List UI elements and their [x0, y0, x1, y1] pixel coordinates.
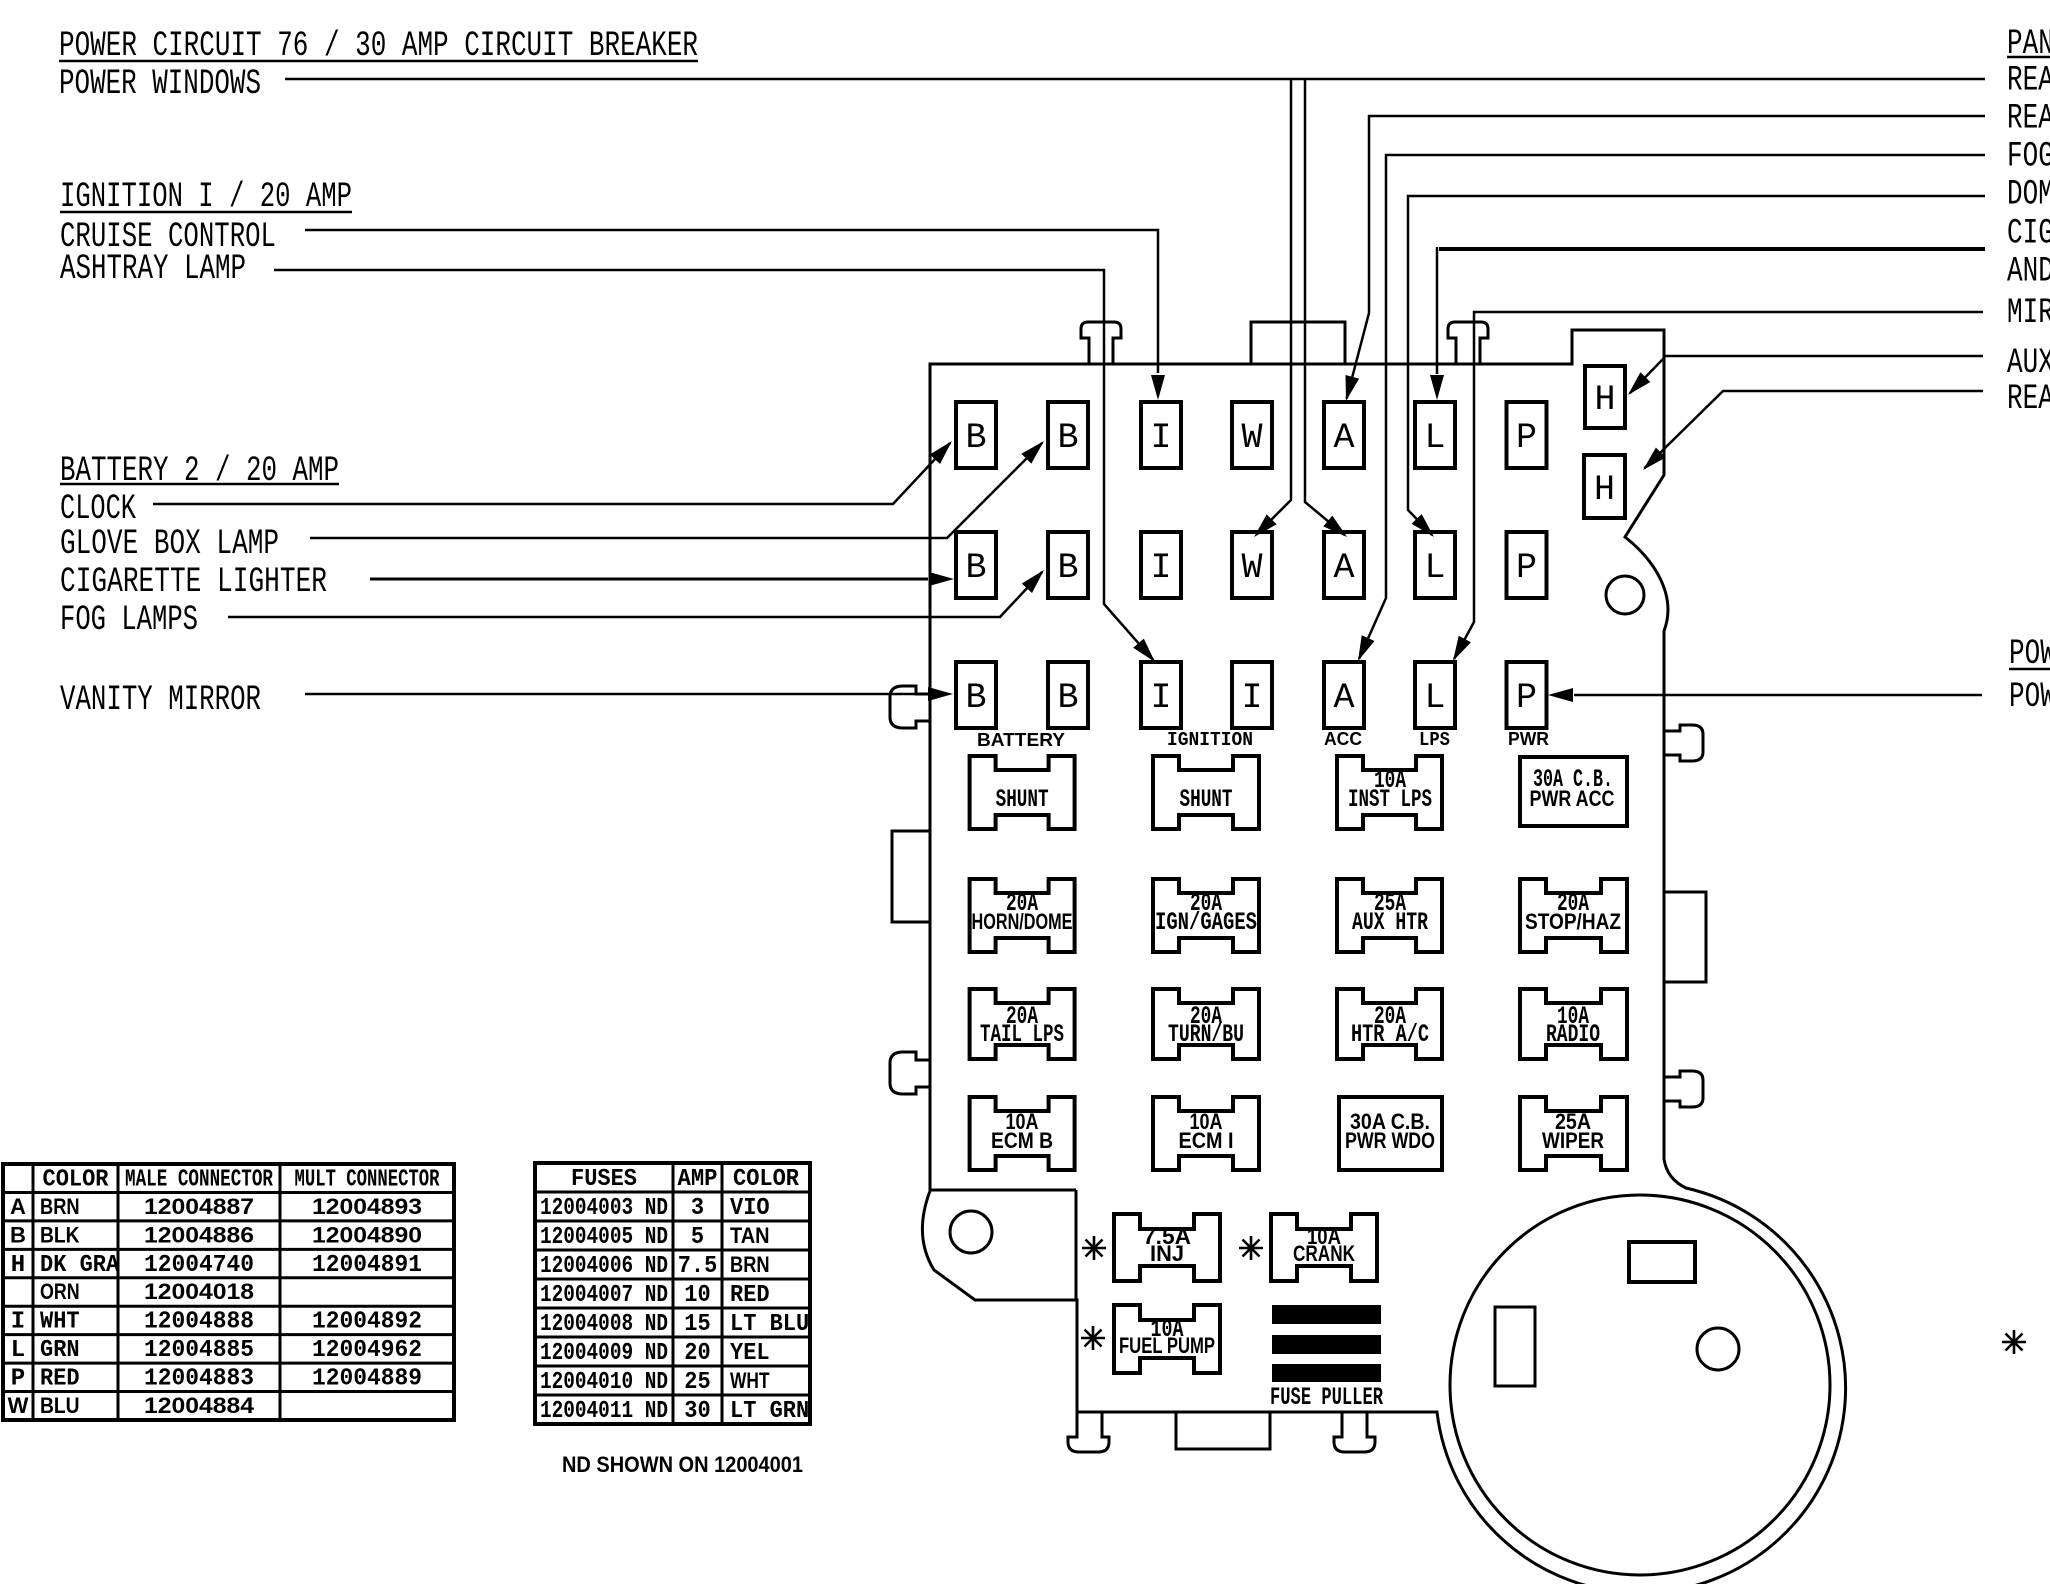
svg-text:ACC: ACC [1324, 729, 1362, 749]
wire REA1 from right to row2 A connector [1305, 80, 1347, 537]
svg-text:DK GRA: DK GRA [40, 1252, 120, 1279]
svg-text:HTR A/C: HTR A/C [1351, 1020, 1429, 1049]
label right MIRROR 7 (clipped) [2007, 293, 2050, 333]
svg-text:25: 25 [684, 1369, 710, 1396]
svg-text:LPS: LPS [1419, 729, 1450, 751]
label CLOCK [60, 489, 136, 529]
bottom mushroom tab 2 [1334, 1412, 1375, 1452]
svg-text:B: B [1057, 678, 1078, 718]
label POWER heading (clipped) [2009, 634, 2050, 674]
fuse 7.5A INJ [1114, 1214, 1220, 1281]
svg-text:B: B [965, 548, 986, 588]
svg-text:12004962: 12004962 [312, 1337, 422, 1364]
svg-text:12004885: 12004885 [144, 1337, 254, 1364]
svg-text:FOG: FOG [2007, 137, 2050, 177]
svg-text:RED: RED [40, 1366, 80, 1393]
svg-text:HORN/DOME: HORN/DOME [972, 909, 1073, 934]
svg-text:MALE CONNECTOR: MALE CONNECTOR [125, 1166, 273, 1193]
svg-text:AUX HTR: AUX HTR [1352, 908, 1428, 937]
svg-text:WIPER: WIPER [1542, 1128, 1604, 1153]
svg-text:ECM B: ECM B [991, 1128, 1053, 1153]
wire POWER from right to row3 P connector [1548, 688, 1982, 702]
svg-text:12004892: 12004892 [312, 1309, 422, 1336]
svg-text:I: I [1150, 548, 1171, 588]
svg-text:12004007 ND: 12004007 ND [540, 1282, 668, 1309]
wire GLOVE BOX LAMP to row1 B2 connector [310, 441, 1044, 538]
right rectangular tab [1665, 892, 1706, 982]
wire CIG/AND from right to row1 L connector [1430, 247, 1985, 400]
svg-text:H: H [11, 1252, 25, 1279]
fuse block body outline [922, 330, 1845, 1584]
label right CIG 5 (clipped) [2007, 214, 2050, 254]
svg-text:A: A [1333, 678, 1354, 718]
svg-text:FUSES: FUSES [571, 1166, 637, 1193]
fuse 20A IGN/GAGES [1153, 879, 1259, 952]
label PANEL heading (clipped) [2007, 24, 2050, 64]
wire FOG from right to row3 A connector [1358, 155, 1985, 661]
svg-text:DOME: DOME [2007, 175, 2050, 215]
svg-text:VIO: VIO [730, 1195, 770, 1222]
svg-text:PWR WDO: PWR WDO [1345, 1128, 1435, 1153]
svg-text:RED: RED [730, 1282, 770, 1309]
asterisk for FUEL PUMP fuse [1081, 1337, 1105, 1340]
svg-text:5: 5 [691, 1224, 704, 1251]
wire VANITY MIRROR to row3 B connector [305, 687, 953, 701]
connector cavity W row2 col W [1232, 532, 1272, 598]
svg-text:B: B [965, 418, 986, 458]
svg-text:CLOCK: CLOCK [60, 489, 136, 529]
svg-text:12004891: 12004891 [312, 1252, 422, 1279]
fuse 20A TAIL LPS [970, 989, 1075, 1059]
label CIGARETTE LIGHTER [60, 562, 327, 602]
svg-text:W: W [8, 1393, 29, 1418]
svg-text:ND SHOWN ON 12004001: ND SHOWN ON 12004001 [562, 1452, 803, 1477]
label ASHTRAY LAMP [60, 249, 246, 289]
circuit breaker 30A C.B. PWR WDO [1339, 1097, 1442, 1170]
wire AUX from right to H1 connector [1628, 356, 1983, 395]
svg-text:A: A [10, 1194, 26, 1219]
fuse 10A ECM B [970, 1097, 1075, 1170]
wire DOME from right to row2 L connector [1408, 196, 1985, 537]
svg-text:VANITY MIRROR: VANITY MIRROR [60, 680, 261, 720]
left clip 2 [890, 1052, 931, 1094]
svg-text:B: B [1057, 548, 1078, 588]
svg-text:WHT: WHT [40, 1309, 80, 1336]
label BATTERY 2 / 20 AMP [60, 451, 339, 491]
table connector part numbers [3, 1164, 454, 1420]
connector cavity P row2 col P [1507, 532, 1547, 598]
svg-text:10: 10 [684, 1282, 710, 1309]
label right DOME 4 (clipped) [2007, 175, 2050, 215]
label FOG LAMPS [60, 600, 198, 640]
label GLOVE BOX LAMP [60, 524, 279, 564]
svg-text:REAR: REAR [2007, 379, 2050, 419]
svg-text:INST LPS: INST LPS [1348, 785, 1432, 814]
svg-text:P: P [1516, 418, 1537, 458]
svg-text:A: A [1333, 548, 1354, 588]
table fuse part numbers [535, 1163, 810, 1425]
svg-text:TAIL LPS: TAIL LPS [980, 1020, 1064, 1049]
svg-text:15: 15 [684, 1311, 710, 1338]
fuse SHUNT (battery) [970, 756, 1075, 829]
svg-text:12004018: 12004018 [144, 1279, 254, 1304]
top rectangular tab [1251, 322, 1345, 364]
svg-text:PWR ACC: PWR ACC [1530, 786, 1615, 811]
svg-text:GRN: GRN [40, 1337, 80, 1364]
left clip 1 (vanity mirror row) [890, 686, 931, 728]
svg-text:AUX: AUX [2007, 343, 2050, 383]
svg-text:P: P [1516, 548, 1537, 588]
svg-text:12004009 ND: 12004009 ND [540, 1340, 668, 1367]
svg-text:12004740: 12004740 [144, 1252, 254, 1279]
label right REAR 1 (clipped) [2007, 61, 2050, 101]
svg-text:IGN/GAGES: IGN/GAGES [1155, 908, 1257, 937]
svg-text:30: 30 [684, 1398, 710, 1425]
svg-text:BRN: BRN [40, 1194, 80, 1219]
wire CRUISE CONTROL to row1 I connector [305, 230, 1165, 400]
connector cavity I row1 col I [1141, 402, 1181, 468]
svg-text:FUEL PUMP: FUEL PUMP [1119, 1333, 1215, 1358]
svg-text:REAR: REAR [2007, 99, 2050, 139]
svg-text:12004887: 12004887 [144, 1194, 254, 1219]
svg-text:POWER WINDOWS: POWER WINDOWS [59, 64, 261, 104]
svg-text:PWR: PWR [1508, 729, 1549, 749]
connector cavity B row3 col B2 [1048, 662, 1088, 728]
connector cavity I row3 col I [1141, 662, 1181, 728]
svg-text:FUSE PULLER: FUSE PULLER [1270, 1383, 1383, 1412]
svg-text:AND: AND [2007, 252, 2050, 292]
label right AUX 8 (clipped) [2007, 343, 2050, 383]
svg-text:L: L [11, 1337, 25, 1364]
svg-text:H: H [1594, 470, 1615, 510]
left rectangular tab [892, 831, 931, 922]
svg-text:BATTERY: BATTERY [977, 730, 1065, 750]
svg-text:BLU: BLU [40, 1393, 80, 1418]
svg-text:I: I [1150, 418, 1171, 458]
svg-text:INJ: INJ [1150, 1241, 1184, 1266]
svg-text:RADIO: RADIO [1546, 1020, 1600, 1049]
svg-text:YEL: YEL [730, 1340, 770, 1367]
fuse 10A RADIO [1520, 989, 1627, 1059]
svg-text:7.5: 7.5 [678, 1253, 718, 1280]
svg-text:FOG LAMPS: FOG LAMPS [60, 600, 198, 640]
fuse 10A CRANK [1271, 1214, 1377, 1281]
svg-text:STOP/HAZ: STOP/HAZ [1525, 909, 1621, 934]
svg-text:B: B [1057, 418, 1078, 458]
label right REAR 2 (clipped) [2007, 99, 2050, 139]
right mushroom tab 1 [1665, 725, 1703, 761]
connector cavity B row1 col B1 [956, 402, 996, 468]
svg-text:L: L [1424, 678, 1445, 718]
wire ASHTRAY LAMP to row3 I connector [274, 270, 1155, 662]
connector cavity P row1 col P [1507, 402, 1547, 468]
svg-text:CIG: CIG [2007, 214, 2050, 254]
svg-text:CIGARETTE LIGHTER: CIGARETTE LIGHTER [60, 562, 327, 602]
wire CLOCK to row1 B connector [153, 441, 952, 504]
fuse 20A HTR A/C [1337, 989, 1442, 1059]
svg-text:AMP: AMP [678, 1166, 718, 1193]
svg-text:BRN: BRN [730, 1252, 770, 1277]
fuse 10A INST LPS [1337, 756, 1442, 829]
label POWER CIRCUIT 76 / 30 AMP CIRCUIT BREAKER [59, 26, 698, 66]
wire MIRROR from right to row3 L connector [1453, 312, 1983, 661]
svg-text:ORN: ORN [40, 1279, 80, 1304]
fuse puller (black bars) [1272, 1305, 1381, 1382]
svg-text:12004888: 12004888 [144, 1309, 254, 1336]
connector cavity W row1 col W [1232, 402, 1272, 468]
svg-text:IGNITION: IGNITION [1167, 729, 1253, 751]
svg-text:GLOVE BOX LAMP: GLOVE BOX LAMP [60, 524, 279, 564]
svg-text:W: W [1241, 548, 1262, 588]
fuse 10A ECM I [1153, 1097, 1259, 1170]
svg-text:ASHTRAY LAMP: ASHTRAY LAMP [60, 249, 246, 289]
svg-text:P: P [1516, 678, 1537, 718]
bottom mushroom tab 1 [1068, 1412, 1109, 1452]
asterisk for INJ fuse [1082, 1247, 1106, 1250]
svg-text:W: W [1241, 418, 1262, 458]
connector cavity A row2 col A [1324, 532, 1364, 598]
connector cavity A row3 col A [1324, 662, 1364, 728]
svg-text:REAR: REAR [2007, 61, 2050, 101]
fuse SHUNT (ignition) [1153, 756, 1259, 829]
svg-text:ECM I: ECM I [1179, 1128, 1234, 1153]
wire POWER WINDOWS to row2 W connector [285, 79, 1985, 537]
label right REAR 9 (clipped) [2007, 379, 2050, 419]
label POWER WINDOWS [59, 64, 261, 104]
svg-text:12004893: 12004893 [312, 1194, 422, 1219]
svg-text:12004886: 12004886 [144, 1222, 254, 1247]
svg-text:3: 3 [691, 1195, 704, 1222]
svg-text:H: H [1594, 380, 1615, 420]
svg-text:BLK: BLK [40, 1222, 80, 1247]
wire REA3 from right to H2 connector [1643, 391, 1983, 470]
large mounting circle inner ring [1450, 1195, 1830, 1575]
svg-text:12004883: 12004883 [144, 1366, 254, 1393]
svg-text:12004005 ND: 12004005 ND [540, 1224, 668, 1251]
connector cavity B row1 col B2 [1048, 402, 1088, 468]
connector cavity B row2 col B2 [1048, 532, 1088, 598]
asterisk legend (right) [2002, 1341, 2026, 1344]
svg-text:MULT CONNECTOR: MULT CONNECTOR [295, 1166, 440, 1193]
fuse 20A TURN/BU [1153, 989, 1259, 1059]
mounting ear separation lines [931, 1189, 1076, 1192]
svg-text:B: B [965, 678, 986, 718]
fuse 20A STOP/HAZ [1520, 879, 1627, 952]
asterisk for CRANK fuse [1239, 1247, 1263, 1250]
circuit breaker 30A C.B. PWR ACC [1520, 757, 1627, 826]
connector cavity I row2 col I [1141, 532, 1181, 598]
label IGNITION I / 20 AMP [60, 177, 352, 217]
svg-text:12004889: 12004889 [312, 1366, 422, 1393]
fuse 25A AUX HTR [1337, 879, 1442, 952]
svg-text:COLOR: COLOR [733, 1166, 800, 1193]
svg-text:P: P [11, 1366, 25, 1393]
connector cavity H1 [1585, 366, 1625, 428]
svg-text:MIRROR: MIRROR [2007, 293, 2050, 333]
connector cavity B row2 col B1 [956, 532, 996, 598]
svg-text:COLOR: COLOR [43, 1166, 110, 1193]
wire CIGARETTE LIGHTER to row2 B connector [370, 572, 954, 586]
svg-text:L: L [1424, 418, 1445, 458]
svg-text:B: B [10, 1222, 26, 1247]
svg-text:CRANK: CRANK [1293, 1241, 1355, 1266]
svg-text:LT BLU: LT BLU [730, 1311, 809, 1338]
svg-text:LT GRN: LT GRN [730, 1398, 809, 1425]
label VANITY MIRROR [60, 680, 261, 720]
connector cavity L row2 col L [1415, 532, 1455, 598]
top mushroom tab 1 [1081, 322, 1121, 364]
bottom rectangular tab [1176, 1412, 1270, 1449]
svg-text:I: I [11, 1309, 25, 1336]
svg-text:SHUNT: SHUNT [996, 785, 1049, 814]
connector cavity L row1 col L [1415, 402, 1455, 468]
svg-text:12004003 ND: 12004003 ND [540, 1195, 668, 1222]
label right AND 6 (clipped) [2007, 252, 2050, 292]
fuse 25A WIPER [1520, 1097, 1627, 1170]
connector cavity B row3 col B1 [956, 662, 996, 728]
connector cavity I row3 col W [1232, 662, 1272, 728]
svg-text:SHUNT: SHUNT [1180, 785, 1233, 814]
svg-text:WHT: WHT [730, 1368, 770, 1393]
svg-text:20: 20 [684, 1340, 710, 1367]
rectangular cutout inside circle (vertical) [1495, 1307, 1535, 1386]
label POWER (clipped) [2009, 677, 2050, 717]
mounting ear hole (bottom left circle) [950, 1211, 992, 1253]
svg-text:12004890: 12004890 [312, 1222, 422, 1247]
svg-text:I: I [1150, 678, 1171, 718]
connector cavity H2 [1584, 455, 1625, 518]
svg-text:12004006 ND: 12004006 ND [540, 1253, 668, 1280]
label right FOG 3 (clipped) [2007, 137, 2050, 177]
side notch hole circle (right) [1606, 576, 1644, 614]
svg-text:12004008 ND: 12004008 ND [540, 1311, 668, 1338]
fuse 20A HORN/DOME [970, 879, 1075, 952]
svg-text:TAN: TAN [730, 1223, 770, 1248]
svg-text:12004011 ND: 12004011 ND [540, 1398, 668, 1425]
top mushroom tab 2 [1448, 322, 1488, 364]
rectangular cutout inside circle (horizontal) [1629, 1242, 1695, 1282]
wire FOG LAMPS to row2 B2 connector [228, 570, 1044, 617]
fuse 10A FUEL PUMP [1114, 1305, 1220, 1373]
svg-text:I: I [1241, 678, 1262, 718]
small hole inside circle [1697, 1328, 1739, 1370]
svg-text:A: A [1333, 418, 1354, 458]
svg-text:POWER: POWER [2009, 677, 2050, 717]
label CRUISE CONTROL [60, 217, 276, 257]
svg-text:12004010 ND: 12004010 ND [540, 1369, 668, 1396]
svg-text:L: L [1424, 548, 1445, 588]
svg-text:12004884: 12004884 [144, 1393, 255, 1418]
wire REA2 from right to row1 A connector [1346, 116, 1986, 401]
svg-text:TURN/BU: TURN/BU [1168, 1020, 1244, 1049]
right mushroom tab 2 [1665, 1071, 1703, 1107]
connector cavity A row1 col A [1324, 402, 1364, 468]
connector cavity P row3 col P [1507, 662, 1547, 728]
connector cavity L row3 col L [1415, 662, 1455, 728]
